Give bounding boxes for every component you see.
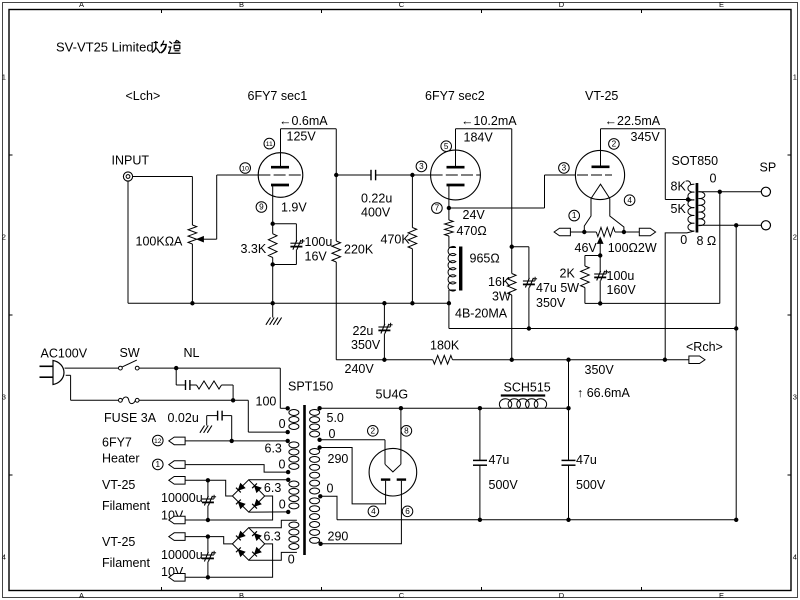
svg-text:1: 1 xyxy=(793,73,797,82)
svg-text:400V: 400V xyxy=(361,206,391,220)
svg-text:4B-20MA: 4B-20MA xyxy=(455,307,508,321)
svg-text:<Lch>: <Lch> xyxy=(126,89,161,103)
svg-text:B: B xyxy=(239,0,244,9)
svg-text:A: A xyxy=(79,591,84,600)
svg-text:E: E xyxy=(719,591,724,600)
svg-text:184V: 184V xyxy=(464,131,494,145)
svg-text:10000u: 10000u xyxy=(161,491,203,505)
svg-text:SW: SW xyxy=(120,346,140,360)
svg-text:965Ω: 965Ω xyxy=(470,252,500,266)
svg-text:3.3K: 3.3K xyxy=(241,242,267,256)
svg-text:47u 5W: 47u 5W xyxy=(536,281,579,295)
svg-text:2: 2 xyxy=(793,233,797,242)
svg-text:FUSE 3A: FUSE 3A xyxy=(104,411,157,425)
svg-text:470Ω: 470Ω xyxy=(457,224,487,238)
svg-text:350V: 350V xyxy=(351,338,381,352)
svg-text:6.3: 6.3 xyxy=(265,442,282,456)
svg-text:1: 1 xyxy=(156,460,161,469)
svg-text:E: E xyxy=(719,0,724,9)
svg-text:100u: 100u xyxy=(607,269,635,283)
svg-text:9: 9 xyxy=(259,203,264,212)
svg-text:100KΩA: 100KΩA xyxy=(136,235,184,249)
svg-text:345V: 345V xyxy=(631,130,661,144)
svg-text:6: 6 xyxy=(405,507,410,516)
svg-text:220K: 220K xyxy=(344,243,374,257)
svg-text:Filament: Filament xyxy=(102,499,150,513)
svg-text:←22.5mA: ←22.5mA xyxy=(605,114,661,128)
svg-text:2: 2 xyxy=(2,233,6,242)
svg-text:10: 10 xyxy=(241,166,249,173)
svg-text:350V: 350V xyxy=(536,296,566,310)
svg-text:5U4G: 5U4G xyxy=(376,388,409,402)
svg-text:SV-VT25 Limited: SV-VT25 Limited xyxy=(56,40,154,55)
svg-text:↑ 66.6mA: ↑ 66.6mA xyxy=(577,386,630,400)
svg-text:47u: 47u xyxy=(576,453,597,467)
svg-text:24V: 24V xyxy=(463,208,486,222)
svg-text:160V: 160V xyxy=(607,283,637,297)
svg-text:VT-25: VT-25 xyxy=(102,535,135,549)
svg-text:5: 5 xyxy=(444,142,449,151)
svg-text:VT-25: VT-25 xyxy=(102,478,135,492)
svg-text:VT-25: VT-25 xyxy=(585,89,618,103)
svg-text:3: 3 xyxy=(419,162,424,171)
svg-text:16K: 16K xyxy=(488,275,511,289)
svg-text:3: 3 xyxy=(2,393,6,402)
svg-text:8 Ω: 8 Ω xyxy=(697,234,717,248)
svg-text:10000u: 10000u xyxy=(161,548,203,562)
svg-text:22u: 22u xyxy=(353,324,374,338)
svg-text:B: B xyxy=(239,591,244,600)
svg-text:11: 11 xyxy=(266,141,273,148)
svg-text:3W: 3W xyxy=(492,290,511,304)
svg-text:240V: 240V xyxy=(345,362,375,376)
svg-text:0: 0 xyxy=(327,482,334,496)
svg-text:AC100V: AC100V xyxy=(41,347,88,361)
svg-text:C: C xyxy=(399,591,405,600)
svg-text:2K: 2K xyxy=(560,267,576,281)
svg-text:D: D xyxy=(559,591,565,600)
svg-text:6FY7 sec2: 6FY7 sec2 xyxy=(425,89,485,103)
svg-text:A: A xyxy=(79,0,84,9)
svg-text:46V: 46V xyxy=(575,241,598,255)
svg-text:350V: 350V xyxy=(585,363,615,377)
svg-text:0: 0 xyxy=(329,427,336,441)
svg-text:<Rch>: <Rch> xyxy=(686,340,723,354)
svg-text:SCH515: SCH515 xyxy=(504,381,551,395)
svg-text:100u: 100u xyxy=(305,235,333,249)
svg-text:6FY7: 6FY7 xyxy=(102,436,132,450)
svg-text:C: C xyxy=(399,0,405,9)
svg-text:←10.2mA: ←10.2mA xyxy=(461,114,517,128)
svg-text:125V: 125V xyxy=(287,130,317,144)
svg-text:0: 0 xyxy=(279,458,286,472)
svg-text:SPT150: SPT150 xyxy=(288,380,333,394)
svg-text:470K: 470K xyxy=(381,233,411,247)
svg-text:Filament: Filament xyxy=(102,556,150,570)
svg-text:0.22u: 0.22u xyxy=(361,192,392,206)
svg-text:0: 0 xyxy=(680,233,687,247)
svg-text:NL: NL xyxy=(184,346,200,360)
svg-text:2: 2 xyxy=(371,426,376,435)
svg-text:47u: 47u xyxy=(489,453,510,467)
svg-text:180K: 180K xyxy=(430,339,460,353)
svg-text:290: 290 xyxy=(328,530,349,544)
svg-text:4: 4 xyxy=(793,553,797,562)
svg-text:7: 7 xyxy=(435,204,440,213)
svg-text:6.3: 6.3 xyxy=(264,481,281,495)
svg-text:0.02u: 0.02u xyxy=(168,411,199,425)
svg-text:16V: 16V xyxy=(305,250,328,264)
svg-text:1: 1 xyxy=(572,211,577,220)
svg-text:6.3: 6.3 xyxy=(264,530,281,544)
svg-text:D: D xyxy=(559,0,565,9)
svg-text:←0.6mA: ←0.6mA xyxy=(279,114,328,128)
svg-text:100Ω2W: 100Ω2W xyxy=(608,241,657,255)
svg-text:5.0: 5.0 xyxy=(327,411,344,425)
svg-text:2: 2 xyxy=(612,140,617,149)
svg-text:SOT850: SOT850 xyxy=(672,154,719,168)
svg-text:1.9V: 1.9V xyxy=(281,201,307,215)
svg-text:500V: 500V xyxy=(576,478,606,492)
svg-text:4: 4 xyxy=(627,196,632,205)
svg-text:Heater: Heater xyxy=(102,452,140,466)
svg-text:4: 4 xyxy=(371,507,376,516)
svg-text:0: 0 xyxy=(710,172,717,186)
svg-text:4: 4 xyxy=(2,553,6,562)
svg-text:0: 0 xyxy=(279,498,286,512)
svg-text:8: 8 xyxy=(404,426,409,435)
svg-text:3: 3 xyxy=(793,393,797,402)
svg-text:500V: 500V xyxy=(489,478,519,492)
svg-text:12: 12 xyxy=(154,438,162,445)
svg-text:6FY7 sec1: 6FY7 sec1 xyxy=(248,89,308,103)
svg-text:1: 1 xyxy=(2,73,6,82)
svg-text:290: 290 xyxy=(328,452,349,466)
svg-text:5K: 5K xyxy=(671,202,687,216)
svg-text:SP: SP xyxy=(760,161,777,175)
svg-text:3: 3 xyxy=(562,164,567,173)
svg-text:8K: 8K xyxy=(671,180,687,194)
svg-text:0: 0 xyxy=(279,417,286,431)
svg-text:100: 100 xyxy=(256,395,277,409)
svg-text:0: 0 xyxy=(288,553,295,567)
svg-text:INPUT: INPUT xyxy=(112,154,150,168)
